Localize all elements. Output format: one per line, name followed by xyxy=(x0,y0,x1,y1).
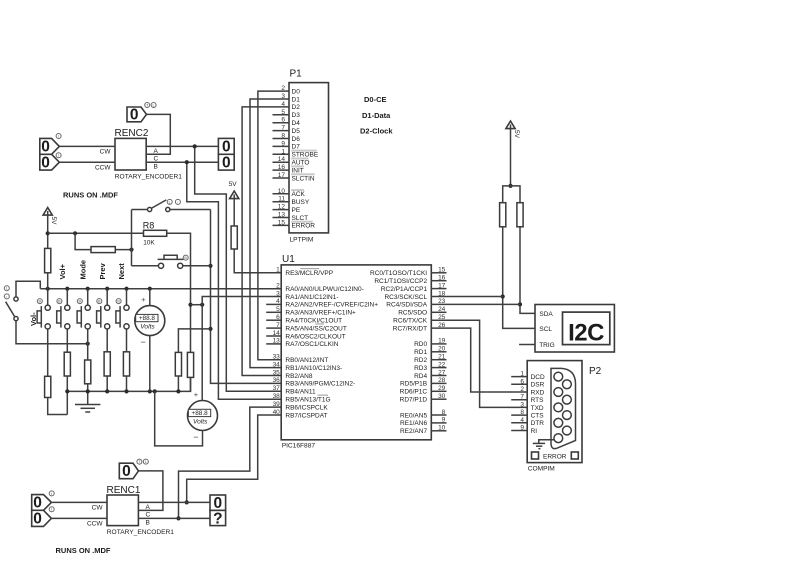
svg-text:ROTARY_ENCODER1: ROTARY_ENCODER1 xyxy=(115,174,183,181)
svg-text:↑: ↑ xyxy=(6,295,8,299)
svg-text:RB4/AN11: RB4/AN11 xyxy=(285,389,316,396)
wire Next resistor to rail xyxy=(126,376,128,391)
resistor R Mode (vertical) xyxy=(85,360,91,384)
junction gnd rail x=154.7 xyxy=(153,389,157,393)
svg-text:SCL: SCL xyxy=(539,326,552,333)
svg-text:RB7/ICSPDAT: RB7/ICSPDAT xyxy=(285,412,327,419)
voltmeter VM2 xyxy=(188,390,218,442)
push button Mode xyxy=(77,299,90,329)
wire 5V resistor to rail (Vol- top) xyxy=(47,273,49,305)
wire Vol- bottom to resistor xyxy=(47,329,49,376)
svg-text:0: 0 xyxy=(41,155,50,172)
svg-text:RB6/ICSPCLK: RB6/ICSPCLK xyxy=(285,404,328,411)
wire P1 D1 to U1 RB1 xyxy=(250,99,289,368)
svg-text:B: B xyxy=(58,300,61,304)
wire tap-A resistor to rail xyxy=(177,376,179,391)
P2 DB9 pin circle L3 xyxy=(554,403,563,412)
svg-text:RA3/AN3/VREF+/C1IN+: RA3/AN3/VREF+/C1IN+ xyxy=(285,310,356,317)
svg-text:B: B xyxy=(39,300,42,304)
svg-text:16: 16 xyxy=(438,275,446,282)
svg-text:RD5/P1B: RD5/P1B xyxy=(400,381,427,388)
svg-text:+88.8: +88.8 xyxy=(139,315,156,322)
P2 internal ground symbol xyxy=(533,440,554,449)
svg-text:4: 4 xyxy=(276,298,280,305)
logic state probe RENC2 CW xyxy=(40,134,61,156)
svg-text:14: 14 xyxy=(278,156,286,163)
svg-text:RE3/MCLR/VPP: RE3/MCLR/VPP xyxy=(285,270,333,277)
svg-text:B: B xyxy=(154,164,158,171)
svg-text:RB1/AN10/C12IN3-: RB1/AN10/C12IN3- xyxy=(285,365,342,372)
junction rail x=47.7 xyxy=(46,287,50,291)
svg-text:ACK: ACK xyxy=(292,191,306,198)
svg-text:19: 19 xyxy=(438,338,446,345)
svg-text:L: L xyxy=(169,200,171,204)
wire RB3 column vertical xyxy=(211,210,282,384)
svg-text:ERROR: ERROR xyxy=(543,453,567,460)
wire divider resistor to switch column xyxy=(115,249,131,251)
svg-text:RB2/AN8: RB2/AN8 xyxy=(285,373,312,380)
svg-text:21: 21 xyxy=(438,354,446,361)
wire RENC2 CCW input xyxy=(59,161,115,163)
junction reset button junction xyxy=(208,264,212,268)
resistor R Prev (vertical) xyxy=(104,352,110,376)
svg-text:D4: D4 xyxy=(292,120,301,127)
IC U1 PIC16F887 xyxy=(266,254,446,450)
junction rail x=149.8 xyxy=(148,287,152,291)
wire Prev resistor to rail xyxy=(106,376,108,391)
wire pullup split bar xyxy=(503,186,520,203)
svg-text:0: 0 xyxy=(33,495,42,512)
svg-text:DSR: DSR xyxy=(531,382,545,389)
svg-text:14: 14 xyxy=(273,330,281,337)
svg-text:BUSY: BUSY xyxy=(292,199,310,206)
wire 5V-left arrow down xyxy=(47,215,49,248)
svg-text:L: L xyxy=(6,287,8,291)
wire 5V rail to R8 xyxy=(48,232,144,234)
wire RENC2 top probe to pin C xyxy=(146,114,170,154)
wire U1 TX to P2 TXD xyxy=(431,320,527,407)
svg-text:7: 7 xyxy=(520,394,524,401)
svg-text:6: 6 xyxy=(276,314,280,321)
junction 5V rail left xyxy=(46,231,50,235)
svg-text:RC1/T1OSI/CCP2: RC1/T1OSI/CCP2 xyxy=(374,278,427,285)
svg-text:RE0/AN5: RE0/AN5 xyxy=(400,412,427,419)
svg-text:I: I xyxy=(58,134,59,138)
svg-text:I: I xyxy=(51,508,52,512)
wire U1 RC4 SDA xyxy=(431,303,520,305)
svg-text:ROTARY_ENCODER1: ROTARY_ENCODER1 xyxy=(107,529,175,536)
svg-text:22: 22 xyxy=(438,361,446,368)
wire VM1 minus to rail xyxy=(149,336,151,392)
wire tap-A branch xyxy=(178,329,210,353)
svg-text:D0-CE: D0-CE xyxy=(364,95,387,104)
wire U1 RB7 to RENC1 A xyxy=(187,415,282,502)
junction RA1 node west xyxy=(188,303,192,307)
svg-text:RB0/AN12/INT: RB0/AN12/INT xyxy=(285,357,328,364)
svg-text:B: B xyxy=(98,300,101,304)
logic state probe RENC1 CW xyxy=(32,491,55,512)
wire to SW-top left terminal xyxy=(132,209,148,211)
svg-text:D6: D6 xyxy=(292,136,301,143)
svg-text:RD0: RD0 xyxy=(414,341,427,348)
svg-text:Volts: Volts xyxy=(140,324,155,331)
svg-text:9: 9 xyxy=(520,425,524,432)
voltmeter VM1 xyxy=(135,295,165,347)
svg-text:27: 27 xyxy=(438,369,446,376)
junction rail x=87.7 xyxy=(86,287,90,291)
P2 ERROR indicator xyxy=(532,452,579,460)
svg-text:↑: ↑ xyxy=(177,200,179,204)
wire Vol+ top stub xyxy=(66,289,68,305)
svg-text:RA7/OSC1/CLKIN: RA7/OSC1/CLKIN xyxy=(285,341,338,348)
wire Prev top stub xyxy=(106,289,108,305)
resistor R MCLR pull-up (vertical) xyxy=(231,226,237,249)
power symbol 5V MCLR pull-up xyxy=(229,181,239,199)
svg-text:5V: 5V xyxy=(50,217,57,226)
junction switch column xyxy=(129,248,133,252)
svg-text:RD4: RD4 xyxy=(414,373,427,380)
svg-text:Next: Next xyxy=(117,263,126,280)
svg-text:DCD: DCD xyxy=(531,374,545,381)
svg-text:10: 10 xyxy=(278,188,286,195)
wire Vol+ bottom to resistor xyxy=(66,329,68,352)
resistor R8 (horizontal) xyxy=(144,230,167,236)
svg-text:CTS: CTS xyxy=(531,413,545,420)
svg-text:RENC2: RENC2 xyxy=(115,128,149,139)
svg-text:RC4/SDI/SDA: RC4/SDI/SDA xyxy=(386,302,427,309)
svg-text:7: 7 xyxy=(276,322,280,329)
svg-text:RC6/TX/CK: RC6/TX/CK xyxy=(393,318,428,325)
junction gnd rail x=107.2 xyxy=(105,389,109,393)
wire Prev bottom to resistor xyxy=(106,329,108,352)
resistor R Next (vertical) xyxy=(123,352,129,376)
svg-text:RA1/AN1/C12IN1-: RA1/AN1/C12IN1- xyxy=(285,294,338,301)
svg-text:I: I xyxy=(58,154,59,158)
push button Vol+ xyxy=(57,299,70,329)
svg-text:Prev: Prev xyxy=(98,262,107,279)
wire 5V to I2C pullups xyxy=(510,129,512,186)
svg-text:RC7/RX/DT: RC7/RX/DT xyxy=(393,325,427,332)
wire RENC2 A to U1 RB4 xyxy=(195,146,282,391)
svg-text:5: 5 xyxy=(276,306,280,313)
wire left switch bottom to Mode column xyxy=(16,321,88,344)
wire Mode bottom to resistor xyxy=(87,329,89,360)
P2 DB9 pin circle L1 xyxy=(554,372,563,381)
junction SCL node xyxy=(501,294,505,298)
svg-text:−: − xyxy=(141,337,146,347)
svg-text:29: 29 xyxy=(438,385,446,392)
svg-text:RC5/SDO: RC5/SDO xyxy=(398,310,427,317)
svg-text:Volts: Volts xyxy=(193,419,208,426)
svg-text:RA0/AN0/ULPWU/C12IN0-: RA0/AN0/ULPWU/C12IN0- xyxy=(285,286,363,293)
svg-text:5: 5 xyxy=(281,109,285,116)
svg-text:RC2/P1A/CCP1: RC2/P1A/CCP1 xyxy=(381,286,428,293)
push button Vol- xyxy=(37,299,50,329)
svg-text:B: B xyxy=(184,256,187,260)
junction rail x=67.3 xyxy=(65,287,69,291)
wire RENC2 B to U1 RB5 xyxy=(187,162,281,399)
svg-text:20: 20 xyxy=(438,346,446,353)
svg-text:RD1: RD1 xyxy=(414,349,427,356)
svg-text:RD2: RD2 xyxy=(414,357,427,364)
wire tap-B resistor to rail end xyxy=(190,377,192,391)
svg-text:0: 0 xyxy=(222,139,231,156)
svg-text:10K: 10K xyxy=(143,239,155,246)
svg-text:RD7/P1D: RD7/P1D xyxy=(400,397,428,404)
junction RENC2 A xyxy=(193,144,197,148)
junction RA1 node east xyxy=(200,303,204,307)
switch SW-left (Vol- select) xyxy=(4,286,18,321)
svg-text:COMPIM: COMPIM xyxy=(528,466,555,473)
P2 DB9 pin circle L2 xyxy=(554,388,563,397)
push button RESET (horizontal) xyxy=(158,255,189,268)
svg-text:RD6/P1C: RD6/P1C xyxy=(400,389,428,396)
junction gnd rail x=87.7 xyxy=(86,389,90,393)
wire reset button left xyxy=(132,265,159,267)
svg-text:+: + xyxy=(141,295,146,304)
svg-text:6: 6 xyxy=(520,378,524,385)
svg-text:RUNS ON .MDF: RUNS ON .MDF xyxy=(56,546,111,555)
svg-text:L: L xyxy=(153,103,155,107)
wire Next top stub xyxy=(126,289,128,305)
wire switch column vertical xyxy=(131,210,133,266)
svg-text:R8: R8 xyxy=(143,220,155,230)
wire RENC2 A to probe xyxy=(146,145,218,147)
wire P1 D2 to U1 RB2 xyxy=(242,107,289,376)
svg-text:CW: CW xyxy=(100,149,112,156)
P2 DB9 pin circle L5 xyxy=(554,434,563,443)
wire MCLR resistor to U1 pin1 xyxy=(234,249,281,273)
svg-text:B: B xyxy=(79,300,82,304)
P2 DB9 connector body xyxy=(551,368,576,448)
P2 DB9 pin circle L4 xyxy=(554,418,563,427)
svg-text:Mode: Mode xyxy=(78,260,87,280)
svg-text:−: − xyxy=(193,432,198,442)
wire node to VM2 plus xyxy=(201,305,203,401)
svg-text:RA4/T0CKI/C1OUT: RA4/T0CKI/C1OUT xyxy=(285,318,342,325)
junction gnd rail x=178.4 xyxy=(176,389,180,393)
resistor R tap-B (vertical) xyxy=(187,352,193,377)
svg-text:12: 12 xyxy=(278,204,286,211)
resistor R divider mid (horizontal) xyxy=(91,247,115,253)
svg-text:17: 17 xyxy=(278,172,286,179)
logic probe RENC1 B output xyxy=(210,510,226,527)
wire RENC2 CW input xyxy=(59,145,115,147)
svg-text:5V: 5V xyxy=(513,130,520,139)
svg-text:7: 7 xyxy=(281,125,285,132)
svg-text:RC3/SCK/SCL: RC3/SCK/SCL xyxy=(384,294,427,301)
push button Prev xyxy=(97,299,110,329)
svg-text:I: I xyxy=(51,492,52,496)
svg-text:0: 0 xyxy=(130,106,139,123)
svg-text:11: 11 xyxy=(278,196,285,203)
svg-text:ERROR: ERROR xyxy=(292,223,316,230)
logic state probe RENC2 top (to pin C) xyxy=(127,103,156,124)
svg-text:5V: 5V xyxy=(229,181,238,188)
resistor R Vol- (vertical) xyxy=(45,376,51,397)
wire RENC2 B to probe xyxy=(146,161,218,163)
I2C debugger module xyxy=(535,305,614,353)
svg-text:SDA: SDA xyxy=(539,311,553,318)
svg-text:CW: CW xyxy=(92,505,104,512)
svg-text:0: 0 xyxy=(213,495,222,512)
svg-text:PE: PE xyxy=(292,207,301,214)
junction divider tap xyxy=(73,231,77,235)
wire U1 RC3 SCL xyxy=(431,296,502,298)
power symbol 5V I2C pull-ups xyxy=(506,121,520,139)
svg-text:CCW: CCW xyxy=(95,164,111,171)
wire Vol+ resistor to rail xyxy=(66,376,68,391)
wire Mode top stub xyxy=(87,289,89,305)
svg-text:DTR: DTR xyxy=(531,420,545,427)
svg-text:RUNS ON .MDF: RUNS ON .MDF xyxy=(63,191,118,200)
svg-text:0: 0 xyxy=(33,511,42,528)
wire RENC1 CCW input xyxy=(51,517,107,519)
svg-text:9: 9 xyxy=(281,140,285,147)
svg-text:24: 24 xyxy=(438,306,446,313)
wire 5V to MCLR resistor xyxy=(233,199,235,226)
P2 DB9 pin circle R1 xyxy=(563,380,572,389)
ground symbol (button rail) xyxy=(75,391,100,412)
logic state probe RENC1 top (to pin C) xyxy=(119,459,148,480)
svg-text:D5: D5 xyxy=(292,128,301,135)
resistor R pulldown 5V-left (vertical) xyxy=(45,248,51,272)
svg-text:10: 10 xyxy=(438,425,446,432)
svg-text:13: 13 xyxy=(273,338,281,345)
svg-text:8: 8 xyxy=(281,133,285,140)
svg-text:9: 9 xyxy=(442,417,446,424)
logic state probe RENC1 CCW xyxy=(32,507,55,528)
wire RENC1 B line xyxy=(138,517,210,519)
svg-text:8: 8 xyxy=(520,409,524,416)
junction SDA node xyxy=(518,302,522,306)
junction Mode column tap xyxy=(86,342,90,346)
svg-text:RB3/AN9/PGM/C12IN2-: RB3/AN9/PGM/C12IN2- xyxy=(285,381,355,388)
P2 DB9 pin circle R2 xyxy=(563,395,572,404)
switch SW-top (interactive, near R8) xyxy=(148,199,181,211)
svg-text:SLCTIN: SLCTIN xyxy=(292,175,315,182)
junction rail x=107.2 xyxy=(105,287,109,291)
junction RENC2 B xyxy=(185,160,189,164)
svg-text:15: 15 xyxy=(278,219,286,226)
svg-text:RC0/T1OSO/T1CKI: RC0/T1OSO/T1CKI xyxy=(370,270,427,277)
wire SCL pullup down xyxy=(503,227,535,329)
wire P1 D0 to U1 RB0 xyxy=(258,91,289,360)
rotary encoder RENC1 xyxy=(87,485,174,536)
wire RA1 node cross piece xyxy=(191,304,203,306)
svg-text:D0: D0 xyxy=(292,88,301,95)
wire I2C TRIG stub xyxy=(519,344,535,346)
wire U1 RB6 to RENC1 B xyxy=(179,407,282,518)
wire RENC1 top probe to pin C xyxy=(138,471,163,511)
wire R8 right down to RA1 node xyxy=(167,233,191,352)
connector P1 LPTPIM xyxy=(273,68,329,243)
svg-text:0: 0 xyxy=(222,155,231,172)
wire left switch to RA0 rail xyxy=(16,281,40,297)
svg-text:+: + xyxy=(194,390,199,399)
wire SW-top right to RB3 column xyxy=(170,209,211,211)
svg-text:LPTPIM: LPTPIM xyxy=(290,237,314,244)
svg-text:D1-Data: D1-Data xyxy=(362,111,391,120)
wire SDA pullup down xyxy=(520,227,535,314)
svg-text:B: B xyxy=(146,520,150,527)
svg-text:16: 16 xyxy=(278,164,286,171)
wire Vol- resistor to return xyxy=(48,398,68,415)
resistor R Vol+ (vertical) xyxy=(64,352,70,376)
wire rail stub down (Vol+ col) xyxy=(66,391,68,414)
svg-text:RI: RI xyxy=(531,428,538,435)
wire RENC1 A line xyxy=(138,501,210,503)
svg-text:I2C: I2C xyxy=(568,320,604,347)
junction RENC1 B xyxy=(176,516,180,520)
push button Next xyxy=(116,299,129,329)
svg-text:P2: P2 xyxy=(589,366,602,377)
svg-text:P1: P1 xyxy=(290,68,303,79)
svg-text:1: 1 xyxy=(520,371,524,378)
svg-text:1: 1 xyxy=(281,148,285,155)
svg-text:+88.8: +88.8 xyxy=(192,410,209,417)
svg-text:Vol-: Vol- xyxy=(29,312,38,326)
svg-text:D2-Clock: D2-Clock xyxy=(360,127,393,136)
P2 DB9 pin circle R4 xyxy=(563,426,572,435)
junction tap-A junction xyxy=(208,327,212,331)
svg-text:RB5/AN13/T1G: RB5/AN13/T1G xyxy=(285,397,330,404)
svg-text:U1: U1 xyxy=(282,254,295,265)
svg-text:RE1/AN6: RE1/AN6 xyxy=(400,420,427,427)
resistor R SDA pull-up (vertical) xyxy=(517,203,523,227)
wire Mode resistor to rail xyxy=(87,384,89,391)
svg-text:13: 13 xyxy=(278,212,286,219)
svg-text:RA5/AN4/SS/C2OUT: RA5/AN4/SS/C2OUT xyxy=(285,325,346,332)
svg-text:PIC16F887: PIC16F887 xyxy=(282,443,316,450)
junction gnd rail x=126.5 xyxy=(124,389,128,393)
svg-text:28: 28 xyxy=(438,377,446,384)
connector P2 COMPIM xyxy=(511,361,601,473)
wire ground rail xyxy=(67,377,190,391)
wire U1 RA1 to node xyxy=(202,297,281,305)
logic probe RENC2 A output xyxy=(218,138,234,155)
power symbol 5V near R8 rail xyxy=(43,208,57,226)
svg-text:4: 4 xyxy=(520,417,524,424)
junction RENC1 A xyxy=(185,500,189,504)
svg-text:TXD: TXD xyxy=(531,405,544,412)
resistor R SCL pull-up (vertical) xyxy=(500,203,506,227)
wire Next bottom to resistor xyxy=(126,329,128,352)
junction rail x=126.5 xyxy=(124,287,128,291)
resistor R tap-A (vertical) xyxy=(175,352,181,376)
svg-text:0: 0 xyxy=(122,463,131,480)
logic state probe RENC2 CCW xyxy=(40,153,61,172)
svg-text:CCW: CCW xyxy=(87,520,103,527)
svg-text:L: L xyxy=(145,460,147,464)
junction gnd rail x=67.3 xyxy=(65,389,69,393)
wire VM1 plus xyxy=(149,289,151,306)
svg-text:RE2/AN7: RE2/AN7 xyxy=(400,428,427,435)
svg-text:RD3: RD3 xyxy=(414,365,427,372)
svg-text:TRIG: TRIG xyxy=(539,342,555,349)
wire tap to divider resistor xyxy=(75,233,91,249)
svg-text:D2: D2 xyxy=(292,104,301,111)
svg-text:?: ? xyxy=(213,510,222,527)
svg-text:Vol+: Vol+ xyxy=(58,263,67,279)
svg-text:30: 30 xyxy=(438,393,446,400)
wire reset button right xyxy=(183,265,211,267)
svg-text:15: 15 xyxy=(438,267,446,274)
svg-text:17: 17 xyxy=(438,282,446,289)
logic probe RENC1 A output xyxy=(210,495,226,512)
wire VM2 minus return xyxy=(155,391,203,446)
svg-text:RA2/AN2/VREF-/CVREF/C2IN+: RA2/AN2/VREF-/CVREF/C2IN+ xyxy=(285,302,378,309)
